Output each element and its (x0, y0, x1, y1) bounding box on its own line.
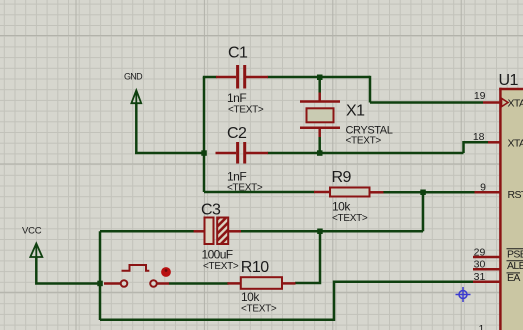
svg-text:XTAL2: XTAL2 (508, 137, 523, 149)
svg-text:9: 9 (480, 181, 486, 193)
svg-text:C1: C1 (228, 45, 248, 62)
wire to R9 (204, 191, 315, 194)
svg-text:U1: U1 (499, 72, 519, 89)
crystal X1 (300, 93, 393, 147)
pin 29 PSEN (473, 246, 523, 260)
wire to C1 (203, 76, 217, 79)
resistor R10 (227, 259, 295, 315)
wire C1 to corner (268, 76, 371, 79)
wire C3 right run (241, 230, 423, 233)
svg-text:18: 18 (473, 131, 485, 143)
svg-text:GND: GND (124, 72, 143, 82)
capacitor C3 (194, 202, 241, 273)
pin 18 XTAL2 (473, 131, 523, 149)
svg-text:29: 29 (474, 246, 486, 258)
svg-text:<TEXT>: <TEXT> (227, 183, 263, 194)
wire C2 to XTAL2 run (268, 152, 464, 155)
svg-text:PSEN: PSEN (507, 248, 523, 260)
svg-text:<TEXT>: <TEXT> (241, 304, 277, 315)
wire left vertical (203, 77, 206, 192)
origin marker (456, 287, 471, 302)
node VCC switch (97, 281, 103, 287)
resistor R9 (314, 169, 384, 224)
node crystal top (317, 75, 323, 81)
wire to XTAL1 (370, 101, 483, 104)
svg-text:<TEXT>: <TEXT> (203, 261, 239, 272)
svg-text:<TEXT>: <TEXT> (346, 136, 382, 147)
mcu U1 body (499, 72, 523, 330)
wire crystal top stub (318, 77, 321, 93)
svg-text:EA: EA (507, 272, 520, 284)
wire crystal bottom stub (318, 137, 321, 153)
wire bottom EA run (100, 282, 474, 320)
svg-text:1nF: 1nF (227, 91, 246, 105)
svg-text:1nF: 1nF (227, 170, 246, 184)
node C2 left (201, 150, 207, 156)
svg-text:C3: C3 (201, 202, 221, 219)
wire XTAL2 jog (464, 142, 489, 153)
svg-text:100uF: 100uF (202, 248, 233, 262)
wire VCC vertical (99, 231, 102, 320)
node C3 right (317, 229, 323, 235)
wire switch to R10 (169, 282, 229, 285)
svg-text:X1: X1 (346, 103, 365, 120)
wire VCC stem (36, 257, 100, 284)
svg-text:RST: RST (508, 189, 523, 201)
svg-text:R9: R9 (332, 169, 352, 186)
wire GND to node (135, 152, 204, 155)
capacitor C1 (216, 45, 268, 116)
svg-text:1: 1 (478, 323, 484, 330)
svg-text:C2: C2 (227, 125, 247, 142)
node crystal bottom (317, 150, 323, 156)
wire corner down (369, 76, 372, 103)
svg-text:31: 31 (474, 271, 486, 283)
svg-text:10k: 10k (332, 200, 351, 214)
svg-text:VCC: VCC (22, 226, 42, 237)
power VCC (22, 226, 42, 258)
svg-text:XTAL1: XTAL1 (508, 98, 523, 110)
pin 19 XTAL1 (474, 90, 523, 110)
svg-text:<TEXT>: <TEXT> (332, 213, 368, 224)
wire C3 left (100, 230, 194, 233)
svg-text:19: 19 (474, 90, 486, 102)
svg-text:10k: 10k (241, 290, 260, 304)
push button (104, 265, 171, 287)
ground (124, 72, 143, 104)
svg-text:30: 30 (474, 259, 486, 271)
capacitor C2 (216, 125, 269, 194)
node RST (420, 190, 426, 196)
svg-text:R10: R10 (241, 259, 269, 276)
svg-text:ALE: ALE (507, 260, 523, 272)
pin 31 EA (473, 271, 520, 284)
pin 30 ALE (473, 259, 523, 273)
pin 9 RST (475, 181, 523, 201)
wire GND stem (135, 103, 138, 153)
wire R10 right up (295, 231, 320, 283)
wire R9 to RST (383, 191, 475, 194)
svg-text:<TEXT>: <TEXT> (228, 105, 264, 116)
wire RST down (422, 192, 425, 231)
